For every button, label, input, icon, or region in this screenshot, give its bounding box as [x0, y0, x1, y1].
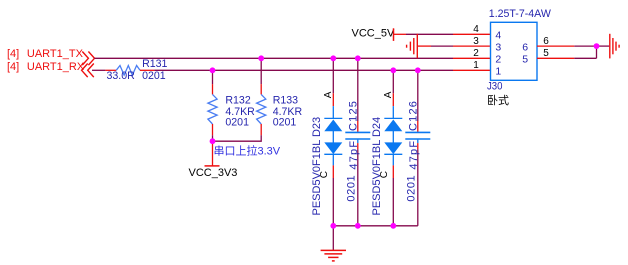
pin number 2: [473, 48, 479, 59]
svg-text:2: 2: [495, 53, 501, 65]
ground symbol right rotated: [610, 34, 619, 59]
svg-text:1: 1: [473, 60, 479, 71]
capacitor C125 bottom lead: [357, 140, 359, 144]
pin stub J30 pin 6: [537, 45, 574, 47]
pin name C of D23: [319, 171, 330, 178]
label PESD5V0F1BL D23: [311, 117, 323, 216]
junction dot R133-TX: [258, 55, 264, 61]
svg-text:UART1_TX: UART1_TX: [27, 48, 84, 60]
svg-text:5: 5: [543, 48, 549, 59]
svg-text:0201: 0201: [225, 117, 249, 129]
pin name A of D24: [383, 91, 394, 98]
pin number 4: [473, 24, 479, 35]
label PESD5V0F1BL D24: [371, 117, 383, 216]
pin number 1: [473, 60, 479, 71]
wire ground bus: [333, 225, 418, 227]
junction dot C126-RX: [415, 67, 421, 73]
resistor R132 bottom pin: [212, 124, 214, 135]
junction dot right ground node: [594, 43, 600, 49]
svg-text:6: 6: [543, 36, 549, 47]
label C125 value 47pF: [348, 140, 360, 170]
wire pin 5 horizontal: [574, 57, 596, 59]
label R131: [142, 58, 167, 70]
TVS diode D24: [384, 106, 402, 165]
ground left pin: [417, 45, 431, 47]
label C125: [348, 100, 360, 131]
svg-text:VCC_5V: VCC_5V: [352, 27, 395, 39]
label R133: [273, 95, 298, 107]
svg-text:33.0R: 33.0R: [107, 70, 136, 82]
junction dot C125-TX: [355, 55, 361, 61]
wire C125 top: [357, 58, 359, 121]
junction dot bus C125: [355, 223, 361, 229]
resistor R131: [116, 66, 140, 76]
label C125 footprint 0201: [346, 175, 358, 202]
diode D24 bottom pin: [392, 165, 394, 178]
pin number 6: [543, 36, 549, 47]
svg-text:[4]: [4]: [7, 48, 19, 60]
label R132: [225, 95, 250, 107]
power VCC_5V pin: [394, 33, 406, 35]
resistor R131 right pin: [140, 69, 154, 71]
svg-text:UART1_RX: UART1_RX: [27, 61, 85, 73]
capacitor C126 bottom pin: [417, 143, 419, 149]
label R132 footprint 0201: [225, 117, 249, 129]
pin number 3: [473, 36, 479, 47]
wire R132 bottom: [212, 135, 214, 141]
svg-text:3: 3: [495, 41, 501, 53]
svg-text:C126: C126: [408, 100, 420, 131]
wire junction to right ground: [597, 45, 610, 47]
pin name 6 inside: [522, 41, 528, 53]
note 串口上拉3.3V: [214, 144, 281, 158]
pin name 2 inside: [495, 53, 501, 65]
pin stub J30 pin 3: [453, 45, 491, 47]
wire D23 top: [332, 58, 334, 93]
diode D23 top pin: [332, 93, 334, 106]
pin name 3 inside: [495, 41, 501, 53]
off-page connector chevron RX: [82, 64, 94, 78]
wire RX net left segment: [92, 69, 105, 71]
TVS diode D23: [324, 106, 342, 165]
svg-text:C125: C125: [348, 100, 360, 131]
diode D24 top pin: [392, 93, 394, 106]
pin name A of D23: [323, 91, 334, 98]
junction dot bus D23: [330, 223, 336, 229]
junction dot D23-TX: [330, 55, 336, 61]
wire VCC_5V to pin 4: [406, 33, 453, 35]
svg-text:0201: 0201: [273, 117, 297, 129]
label R132 value 4.7KR: [225, 106, 255, 118]
svg-text:2: 2: [473, 48, 479, 59]
power VCC_3V3 bar: [205, 165, 220, 167]
wire C125 bottom: [357, 149, 359, 226]
svg-text:R133: R133: [273, 95, 298, 107]
diode D23 bottom pin: [332, 165, 334, 178]
resistor R132: [208, 94, 217, 124]
wire ground stem: [332, 226, 334, 250]
label R133 value 4.7KR: [273, 106, 303, 118]
pin stub J30 pin 1: [453, 69, 491, 71]
label C126 value 47pF: [408, 140, 420, 170]
pin name 1 inside: [495, 65, 501, 77]
junction dot D24-RX: [390, 67, 396, 73]
svg-text:1.25T-7-4AW: 1.25T-7-4AW: [489, 8, 551, 20]
svg-text:R132: R132: [225, 95, 250, 107]
pin number 5: [543, 48, 549, 59]
svg-text:0201: 0201: [142, 70, 166, 82]
svg-text:J30: J30: [487, 81, 503, 93]
svg-text:47pF: 47pF: [408, 140, 420, 170]
resistor R132 top pin: [212, 84, 214, 94]
svg-text:串口上拉3.3V: 串口上拉3.3V: [214, 144, 281, 158]
junction dot bus D24: [390, 223, 396, 229]
junction dot pullup node: [210, 138, 216, 144]
svg-text:卧式: 卧式: [487, 94, 509, 107]
connector J30 body: [491, 22, 538, 80]
capacitor C126 top pin: [417, 121, 419, 132]
svg-text:0201: 0201: [406, 175, 418, 202]
pin stub J30 pin 2: [453, 57, 491, 59]
wire pin 6 to ground: [574, 45, 596, 47]
svg-text:4: 4: [473, 24, 479, 35]
svg-text:A: A: [383, 91, 394, 98]
svg-text:4: 4: [495, 30, 501, 42]
label VCC_5V: [352, 27, 395, 39]
svg-text:3: 3: [473, 36, 479, 47]
power VCC_3V3 pin: [212, 141, 214, 166]
capacitor C125: [345, 132, 370, 139]
svg-text:47pF: 47pF: [348, 140, 360, 170]
svg-text:R131: R131: [142, 58, 167, 70]
svg-text:6: 6: [522, 41, 528, 53]
power VCC_5V bar: [393, 28, 395, 41]
wire R133 bottom corner: [213, 135, 262, 141]
wire R132 top: [212, 70, 214, 84]
ground symbol bottom: [321, 250, 346, 261]
off-page connector chevron TX: [82, 52, 94, 66]
pin name 5 inside: [522, 53, 528, 65]
junction dot R132-RX: [210, 67, 216, 73]
wire RX net middle segment: [154, 69, 453, 71]
pin name 4 inside: [495, 30, 501, 42]
wire pin 3 net: [431, 45, 453, 47]
resistor R133: [257, 94, 266, 124]
svg-text:PESD5V0F1BL D23: PESD5V0F1BL D23: [311, 117, 323, 216]
label VCC_3V3: [189, 167, 238, 179]
ground symbol left rotated: [407, 34, 418, 59]
label J30: [487, 81, 503, 93]
label R133 footprint 0201: [273, 117, 297, 129]
resistor R133 bottom pin: [260, 124, 262, 135]
label 卧式: [487, 94, 509, 107]
svg-text:0201: 0201: [346, 175, 358, 202]
resistor R131 left pin: [105, 69, 116, 71]
wire D23 bottom: [332, 178, 334, 226]
svg-text:[4]: [4]: [7, 61, 19, 73]
wire pin 5 vertical to junction: [596, 46, 598, 58]
wire D24 top: [392, 70, 394, 93]
capacitor C126: [405, 132, 430, 139]
capacitor C125 bottom pin: [357, 143, 359, 149]
pin stub J30 pin 5: [537, 57, 574, 59]
wire C126 top: [417, 70, 419, 121]
svg-text:5: 5: [522, 53, 528, 65]
port [4] UART1_TX: [7, 48, 84, 60]
wire TX net segment: [95, 57, 454, 59]
label C126 footprint 0201: [406, 175, 418, 202]
label C126: [408, 100, 420, 131]
pin stub J30 pin 4: [453, 33, 491, 35]
capacitor C126 bottom lead: [417, 140, 419, 144]
svg-text:VCC_3V3: VCC_3V3: [189, 167, 238, 179]
wire R133 top: [260, 58, 262, 84]
wire C126 bottom: [417, 149, 419, 226]
svg-text:A: A: [323, 91, 334, 98]
wire D24 bottom: [392, 178, 394, 226]
resistor R133 top pin: [260, 84, 262, 94]
pin name C of D24: [379, 171, 390, 178]
svg-text:PESD5V0F1BL D24: PESD5V0F1BL D24: [371, 117, 383, 216]
capacitor C125 top pin: [357, 121, 359, 132]
label R131 footprint 0201: [142, 70, 166, 82]
svg-text:1: 1: [495, 65, 501, 77]
label 33.0R: [107, 70, 136, 82]
label 1.25T-7-4AW: [489, 8, 551, 20]
port [4] UART1_RX: [7, 61, 85, 73]
